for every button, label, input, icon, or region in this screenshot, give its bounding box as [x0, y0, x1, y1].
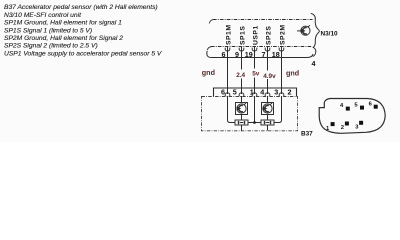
control unit N3/10 bottom boundary (dash-dot): [207, 47, 211, 51]
connector face view of B37: [319, 99, 385, 134]
connector 4 bracket of N3/10: [207, 51, 313, 58]
wire SP2M (pin18 to B37 pin3): [281, 47, 283, 95]
svg-text:2: 2: [288, 88, 292, 97]
mechanical link hall 1: [241, 125, 243, 131]
svg-text:B37: B37: [301, 130, 313, 137]
svg-text:USP1: USP1: [253, 25, 260, 45]
annotation 2.4 (SP1S): [235, 70, 245, 79]
track resistor 2: [261, 120, 274, 125]
svg-text:SP1S: SP1S: [240, 26, 247, 45]
internal symbol (circle with arrow) in N3/10: [297, 25, 310, 35]
B37 pin 4 socket: [265, 93, 270, 97]
wire B37 pin6 to bus: [228, 96, 236, 123]
svg-text:5: 5: [233, 88, 237, 97]
mechanical link hall 2: [267, 125, 269, 131]
pin 18 socket: [279, 48, 284, 51]
svg-text:2: 2: [341, 125, 344, 131]
svg-text:5v: 5v: [252, 71, 260, 78]
svg-text:4.9v: 4.9v: [263, 73, 276, 80]
track resistor 1: [235, 120, 248, 125]
svg-text:2.4: 2.4: [236, 72, 245, 79]
svg-text:SP1M: SP1M: [226, 24, 233, 45]
svg-text:SP2M Ground, Hall element for: SP2M Ground, Hall element for Signal 2: [4, 35, 123, 42]
control unit N3/10 top boundary (dash-dot): [209, 20, 213, 24]
wire SP1M (pin6 to B37 pin6): [227, 47, 229, 95]
B37 pin 5 socket: [239, 93, 244, 97]
wire B37 pin5 to hall 1: [241, 96, 243, 103]
svg-text:gnd: gnd: [286, 69, 299, 78]
B37 pin 1 socket: [252, 93, 257, 97]
wire B37 pin3 to bus: [274, 96, 282, 123]
pin 9 socket: [239, 48, 244, 51]
bus wire between tracks: [248, 122, 261, 124]
hall element 1: [236, 103, 248, 115]
svg-text:gnd: gnd: [202, 68, 215, 77]
B37 pin 6 socket: [225, 93, 230, 97]
svg-text:3: 3: [274, 88, 278, 97]
svg-text:4: 4: [260, 88, 264, 97]
svg-text:SP1M Ground, Hall element for: SP1M Ground, Hall element for signal 1: [4, 20, 122, 27]
svg-text:SP2S Signal 2 (limited to 2.5: SP2S Signal 2 (limited to 2.5 V): [4, 43, 98, 50]
annotation 4.9v (SP2S): [263, 71, 277, 80]
wire hall 2 to track 2: [267, 115, 269, 121]
svg-text:SP2M: SP2M: [280, 24, 287, 45]
wire USP1 (pin19 to B37 pin1): [254, 47, 256, 95]
svg-text:6: 6: [221, 88, 225, 97]
pin 19 socket: [252, 48, 257, 51]
B37 housing (dash-dot box): [202, 97, 298, 131]
svg-text:N3/10 ME-SFI control unit: N3/10 ME-SFI control unit: [4, 12, 82, 19]
B37 pin 3 socket: [279, 93, 284, 97]
svg-text:N3/10: N3/10: [321, 31, 338, 38]
B37 pin strip box (solid): [214, 88, 297, 97]
pin 6 socket: [225, 48, 230, 51]
svg-text:4: 4: [312, 59, 316, 68]
wire hall 1 to track 1: [241, 115, 243, 121]
svg-text:SP1S Signal 1 (limited to 5 V): SP1S Signal 1 (limited to 5 V): [4, 27, 92, 34]
wire SP2S (pin7 to B37 pin4): [267, 47, 269, 95]
wire B37 pin1 to bus junction: [254, 96, 256, 123]
svg-text:SP2S: SP2S: [266, 26, 273, 45]
hall element 2: [262, 103, 274, 115]
annotation 5v (USP1): [252, 69, 259, 78]
wire B37 pin4 to hall 2: [267, 96, 269, 103]
wire SP1S (pin9 to B37 pin5): [241, 47, 243, 95]
junction USP1 node: [253, 121, 256, 124]
svg-text:B37 Accelerator pedal sensor (: B37 Accelerator pedal sensor (with 2 Hal…: [4, 4, 158, 11]
pin 7 socket: [265, 48, 270, 51]
svg-text:USP1 Voltage supply to acceler: USP1 Voltage supply to accelerator pedal…: [4, 50, 162, 57]
control unit torn right edge (brace): [311, 13, 320, 56]
